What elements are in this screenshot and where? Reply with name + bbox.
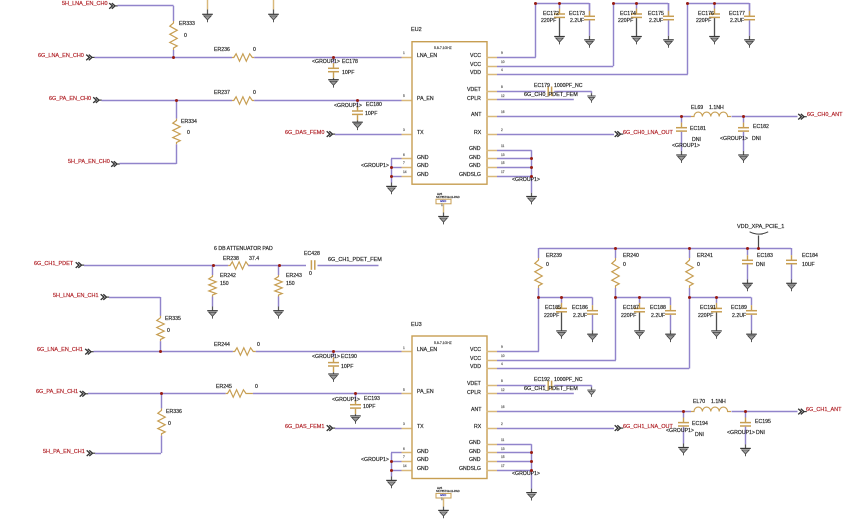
label EC182 [753,125,769,130]
wire [666,20,671,37]
value 2.2UF [573,314,587,319]
wire [536,248,541,259]
pin 1 LNA_EN [401,349,412,354]
ground [583,38,597,49]
wire [174,144,179,165]
wire [668,305,673,312]
wire [743,411,748,418]
pin 2 RX [486,426,498,431]
value 10PF [341,365,353,370]
pin 8 VDET [486,383,498,388]
pin 7 GND [401,165,412,170]
resistor ER244 [232,346,256,357]
capacitor EC187 [634,307,646,314]
junction [172,56,175,59]
wire [331,72,336,79]
wire [529,488,534,493]
wire [94,55,233,60]
port 6G_CH0_ANT [807,113,842,119]
wire [668,297,673,306]
wire [171,50,176,59]
inductor EL70 [691,405,732,414]
wire [210,296,215,307]
pin 8 VDET [486,89,498,94]
ground [555,329,569,340]
ground [349,414,363,425]
label GROUP1 [666,429,694,434]
wire [590,297,595,306]
label EL69 [691,106,703,111]
label ER243 [286,274,302,279]
port arrow 6G_PA_EN_CH0 [92,96,103,105]
wire subbus3 [689,295,752,300]
port arrow 6G_CH1_PDET [75,261,86,270]
junction [638,296,641,299]
label ER242 [220,274,236,279]
resistor ER240 [610,258,621,289]
label EC183 [757,254,773,259]
value 0 [697,263,700,268]
value 220PF [618,19,633,24]
value 220PF [621,314,636,319]
wire [389,182,394,187]
value 220PF [698,314,713,319]
wire [119,161,177,166]
wire [158,297,163,317]
net 6G_CH1_PDET_FEM [524,387,578,393]
value 2.2UF [732,314,746,319]
label ER335 [165,317,181,322]
capacitor EC193 [350,403,362,410]
capacitor EC190 [328,361,340,368]
wire rx [497,132,615,137]
wire [749,330,754,335]
value DNI [695,433,704,438]
wire [731,114,798,119]
resistor ER336 [156,408,167,437]
wire [353,414,358,417]
wire [497,459,533,464]
label EC176 [698,12,714,17]
pin 9 VCC [486,349,498,354]
junction [537,296,540,299]
ground [710,329,724,340]
wire vdd [497,366,691,371]
wire [681,417,686,423]
wire vcc2 riser [611,3,616,67]
junction [159,350,162,353]
wire [749,314,754,331]
wire [687,248,692,259]
junction [612,2,615,5]
value 10PF [365,112,377,117]
wire [210,306,215,312]
wire [441,212,446,217]
wire [559,302,564,309]
label EC179 [534,84,550,89]
wire [590,314,595,331]
port arrow 6G_CH1_LNA_OUT [614,424,625,433]
wire [679,116,684,123]
port arrow 6G_CH0_LNA_OUT [614,130,625,139]
label EC193 [364,397,380,402]
capacitor EC173 [584,15,596,22]
wire [210,265,215,276]
label EL70 [693,400,705,405]
wire [158,341,163,353]
op-amp-style IC EU2 SKY FEM [410,40,488,186]
wire [497,148,533,153]
wire [391,165,403,170]
port arrow 5H_PA_EN_CH0 [110,160,121,169]
port arrow 6G_DAS_FEM0 [326,130,337,139]
wire [743,426,748,445]
wire [589,93,594,97]
pin 16 ANT [486,409,498,414]
port arrow 6G_LNA_EN_CH0 [85,53,96,62]
node EC190 junction [332,350,335,353]
label 5.8-7.1GHZ [434,342,452,345]
value 1000PF_NC [554,378,583,383]
pin 3 TX [401,132,412,137]
junction [560,296,563,299]
wire [681,443,686,448]
wire [666,3,671,12]
junction [175,99,178,102]
pin 10 VCC [486,358,498,363]
wire [681,411,686,418]
value DNI [752,137,761,142]
wire [747,3,752,17]
wire cplr [497,97,575,102]
label EC192 [534,378,550,383]
power symbol VDD_XPA_PCIE_1 [749,231,769,237]
label GROUP1 [512,178,540,183]
value 2.2UF [651,314,665,319]
wire [590,330,595,335]
wire [741,116,746,123]
wire [634,3,639,10]
wire vdd riser [685,3,690,76]
value 0 [253,48,256,53]
wire [668,314,673,331]
value DNI [756,431,765,436]
wire [497,165,533,170]
wire [441,498,446,508]
value 1.1NH [709,106,724,111]
wire power bus [538,246,792,251]
capacitor EC194 [678,421,690,428]
wire [536,288,541,299]
wire [355,105,360,111]
port arrow 6G_CH0_ANT [797,113,808,122]
wire [745,255,750,261]
value 0 [257,343,260,348]
wire [613,248,618,259]
wire vcc2 [497,358,617,363]
wire [634,8,639,15]
label EC175 [648,12,664,17]
pin 9 VCC [486,55,498,60]
wire [174,100,179,120]
wire [254,55,403,60]
wire [331,357,336,363]
port 6G_PA_EN_CH1 [36,390,78,396]
thermal pad EU2 GND [437,193,442,196]
wire vcc1 [497,55,537,60]
value 2.2UF [570,19,584,24]
pin 14 GND [401,174,412,179]
wire [681,426,686,444]
junction [635,2,638,5]
pin 1 LNA_EN [401,55,412,60]
wire [248,263,307,268]
wire [666,10,671,17]
value 220PF [541,19,556,24]
pin 3 TX [401,426,412,431]
label ER237 [214,91,230,96]
label EC173 [569,12,585,17]
wire [589,385,594,388]
value 150 [286,282,295,287]
pin 5 PA_EN [401,391,412,396]
wire [637,312,642,332]
wire [331,372,336,375]
wire [687,288,692,299]
wire [747,35,752,40]
port 6G_CH0_LNA_OUT [623,131,673,137]
wire [589,91,594,94]
capacitor EC195 [740,421,752,428]
junction [614,247,617,250]
wire [679,131,684,152]
ground [737,154,751,165]
wire [529,192,534,197]
wire [355,115,360,122]
value DNI [692,138,701,143]
wire [741,131,746,152]
wire bus2 [613,1,669,6]
junction [530,460,533,463]
wire [590,305,595,312]
value 10PF [363,405,375,410]
wire [554,383,593,388]
resistor ER238 [228,260,250,271]
value 0 [623,263,626,268]
wire [205,0,210,11]
wire [587,10,592,17]
label EC189 [731,306,747,311]
wire [714,302,719,309]
ground [739,447,753,458]
wire [497,174,533,179]
ground [633,329,647,340]
wire [749,297,754,306]
label GROUP1 [361,164,389,169]
wire [679,122,684,128]
junction [530,175,533,178]
label ER240 [623,254,639,259]
wire [745,279,750,284]
capacitor EC176 [709,12,721,19]
wire [331,63,336,69]
pin 2 RX [486,132,498,137]
ground [327,373,341,384]
capacitor EC186 [587,309,599,316]
pin 5 PA_EN [401,98,412,103]
wire [331,77,336,80]
capacitor EC183 [742,259,754,266]
wire power riser [756,235,761,249]
label EC178 [342,60,358,65]
label EC187 [623,306,639,311]
label ER336 [166,410,182,415]
junction [530,451,533,454]
ground [327,78,341,89]
wire [557,8,562,15]
ground [708,35,722,46]
node EC182 junction [742,115,745,118]
wire [741,151,746,156]
value 10PF [342,71,354,76]
port arrow 5H_LNA_EN_CH1 [100,293,111,302]
wire [557,3,562,10]
wire [276,306,281,312]
pin 14 GND [401,468,412,473]
value 220PF [696,19,711,24]
port 5H_PA_EN_CH0 [68,160,110,166]
port arrow 6G_DAS_FEM1 [326,424,337,433]
pin 16 ANT [486,114,498,119]
value 0 [187,131,190,136]
wire [171,5,176,22]
label EC195 [755,420,771,425]
ground [586,389,598,399]
port 5H_LNA_EN_CH0 [62,2,108,8]
IC EU3 SKY FEM [410,334,488,480]
label EC172 [543,12,559,17]
node EC181 junction [680,115,683,118]
wire [587,3,592,12]
pin 13 GND [486,450,498,455]
junction [390,166,393,169]
wire [391,156,403,161]
wire [589,387,594,391]
ground [272,309,286,320]
wire [255,349,402,354]
value 2.2UF [649,19,663,24]
port arrow 6G_PA_EN_CH1 [79,390,90,399]
value 10UF [802,263,815,268]
ground [385,479,399,490]
wire [587,20,592,37]
wire vcc1 [497,349,540,354]
junction [530,157,533,160]
port 6G_DAS_FEM0 [285,131,324,137]
port 6G_DAS_FEM1 [285,425,324,431]
pin 6 GND [401,156,412,161]
junction [757,247,760,250]
wire bus1 [535,1,590,6]
wire [741,122,746,128]
capacitor EC428 [310,260,318,271]
label ER333 [179,22,195,27]
wire vcc1 riser [533,3,538,59]
wire [109,295,162,300]
wire [666,3,671,17]
wire [276,265,281,276]
resistor ER333 [168,21,179,51]
wire vcc1 riser [536,297,541,353]
junction [534,2,537,5]
wire cplr [497,391,575,396]
net 6G_CH0_PDET_FEM [524,93,578,99]
wire [391,450,403,455]
wire [391,174,403,179]
label EC191 [700,306,716,311]
junction [160,392,163,395]
ground [267,13,281,24]
capacitor EC192 [546,380,554,391]
label EC190 [341,355,357,360]
wire [355,100,360,107]
resistor ER243 [273,275,284,298]
label EC428 [304,252,320,257]
port 6G_CH1_ANT [806,408,841,414]
wire [353,393,358,400]
label EU2 [411,28,422,34]
label EC194 [692,422,708,427]
wire [789,264,794,281]
label EC180 [366,103,382,108]
capacitor EC179 [546,86,554,97]
label EU3 [411,323,422,329]
pin 11 GND [486,442,498,447]
pin 1 pad [441,204,443,207]
power VDD_XPA_PCIE_1 [737,225,784,231]
value 0 [167,329,170,334]
capacitor EC175 [663,15,675,22]
capacitor EC188 [665,309,677,316]
junction [686,2,689,5]
port 6G_LNA_EN_CH1 [37,348,83,354]
capacitor EC174 [631,12,643,19]
ground [385,185,399,196]
label EC181 [690,127,706,132]
capacitor EC185 [556,307,568,314]
wire vdet [497,383,547,388]
value 0 [309,272,312,277]
value 0 [253,91,256,96]
wire [637,297,642,304]
wire [789,279,794,284]
value 2.2UF [730,19,744,24]
wire [441,203,446,213]
resistor ER237 [232,95,256,106]
thermal pad EU3 GND [437,487,442,490]
junction [558,2,561,5]
wire [497,468,533,473]
label EC185 [545,306,561,311]
ground [437,509,451,520]
wire [559,312,564,332]
wire rx [497,426,615,431]
port 5H_PA_EN_CH1 [43,450,85,456]
port arrow 6G_LNA_EN_CH1 [84,348,95,357]
value 0 [168,422,171,427]
wire [587,3,592,17]
resistor ER239 [533,258,544,289]
